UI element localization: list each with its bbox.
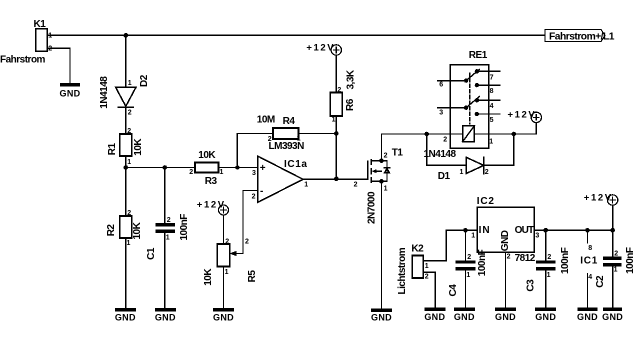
svg-text:10K: 10K [132, 221, 143, 239]
svg-text:2: 2 [443, 136, 447, 143]
svg-text:2: 2 [128, 110, 132, 117]
svg-text:LM393N: LM393N [269, 141, 305, 152]
svg-text:C2: C2 [595, 275, 606, 288]
svg-text:GND: GND [602, 312, 623, 322]
node junction D1 tap [424, 132, 429, 137]
svg-text:Fahrstrom: Fahrstrom [0, 55, 46, 66]
node junction R1/R2/rail [124, 165, 129, 170]
wire R2 to GND [125, 238, 127, 308]
svg-text:T1: T1 [392, 147, 404, 158]
power +12V above R6 [331, 45, 341, 55]
wire D2 anode drop [125, 35, 127, 87]
ground GND under IC2 [495, 308, 516, 312]
node junction T1 source [379, 179, 384, 184]
svg-text:IC1a: IC1a [284, 159, 308, 170]
capacitor C2 [603, 230, 622, 308]
wire R1 to R2 through node [125, 156, 127, 216]
wire R3 to op-amp +in [219, 167, 258, 169]
power +12V above R5 [219, 205, 229, 215]
svg-text:R2: R2 [106, 224, 117, 237]
svg-text:RE1: RE1 [469, 50, 488, 61]
ground GND under K2 [424, 308, 445, 312]
capacitor C1 [155, 168, 175, 309]
svg-text:1: 1 [48, 33, 52, 40]
wire IC1 pin4 ground stub [587, 274, 589, 309]
svg-text:GND: GND [115, 312, 136, 322]
wire R6 to output rail [335, 116, 337, 179]
resistor R3 [195, 163, 219, 173]
svg-text:GND: GND [424, 312, 445, 322]
relay RE1 [438, 65, 501, 149]
svg-text:2: 2 [252, 194, 256, 201]
wire IC2 OUT rail [534, 229, 613, 231]
svg-text:1: 1 [304, 181, 308, 188]
resistor R6 [330, 93, 342, 117]
ground GND under C4 [454, 308, 475, 312]
svg-text:1: 1 [489, 139, 493, 146]
diode D1 [466, 157, 484, 173]
wire IC2 GND pin to GND [505, 252, 507, 308]
svg-text:1: 1 [614, 266, 618, 273]
svg-text:2: 2 [354, 181, 358, 188]
svg-text:D1: D1 [438, 171, 451, 182]
svg-text:R5: R5 [247, 270, 258, 283]
svg-text:3: 3 [535, 233, 539, 240]
svg-text:10M: 10M [257, 114, 275, 125]
node junction top rail / D2 [124, 33, 129, 38]
svg-text:C1: C1 [146, 247, 157, 260]
ground GND under C1 [155, 308, 176, 312]
svg-text:2: 2 [384, 152, 388, 159]
svg-text:10K: 10K [133, 138, 144, 156]
svg-text:7: 7 [490, 74, 494, 81]
svg-text:1: 1 [547, 272, 551, 279]
wire relay coil rail [382, 133, 463, 135]
svg-text:OUT: OUT [515, 225, 534, 236]
svg-text:+12V: +12V [584, 193, 613, 204]
wire K2 pin2 to GND [427, 272, 435, 308]
transistor T1 2N7000 [368, 160, 390, 183]
svg-text:D2: D2 [139, 74, 150, 87]
svg-text:5: 5 [490, 117, 494, 124]
node junction C2 tap [610, 228, 615, 233]
svg-text:1N4148: 1N4148 [424, 149, 457, 160]
svg-text:-: - [260, 186, 263, 197]
svg-text:1: 1 [127, 159, 131, 166]
svg-text:100nF: 100nF [179, 214, 190, 241]
svg-text:4: 4 [490, 103, 494, 110]
svg-text:R3: R3 [205, 176, 218, 187]
svg-text:1: 1 [384, 185, 388, 192]
node junction feedback tap [235, 166, 239, 170]
wire +12V right drop [612, 205, 614, 230]
svg-text:3: 3 [439, 110, 443, 117]
svg-text:1: 1 [332, 116, 336, 123]
svg-text:3: 3 [252, 170, 256, 177]
resistor R4 [273, 128, 299, 139]
node junction C3 tap [543, 228, 548, 233]
svg-text:1N4148: 1N4148 [99, 76, 110, 109]
op-amp IC1a triangle [258, 156, 304, 203]
net flag Fahrstrom+/L1 [545, 30, 605, 42]
svg-text:GND: GND [213, 312, 234, 322]
svg-text:GND: GND [500, 230, 511, 251]
potentiometer R5 [217, 244, 236, 267]
wire R5 bottom to GND [223, 267, 225, 309]
svg-text:R1: R1 [107, 142, 118, 155]
power +12V right [607, 195, 617, 205]
svg-text:100nF: 100nF [477, 249, 488, 276]
svg-text:1: 1 [460, 169, 464, 176]
svg-text:2: 2 [425, 274, 429, 281]
wire op-amp -in to R5 wiper [236, 191, 257, 254]
resistor R2 [120, 216, 132, 238]
connector K1 [36, 29, 52, 52]
svg-text:1: 1 [471, 233, 475, 240]
node junction T1 drain [379, 158, 384, 163]
wire D1 cathode riser [484, 134, 514, 165]
svg-text:1: 1 [225, 269, 229, 276]
svg-text:IC1: IC1 [580, 256, 598, 267]
svg-text:2: 2 [485, 169, 489, 176]
svg-text:1: 1 [425, 263, 429, 270]
node junction R4/R6 [334, 131, 339, 136]
power +12V at relay [531, 112, 541, 122]
wire IC1 pin8 supply stub [587, 230, 589, 243]
wire R4 to R6 column [299, 133, 337, 135]
svg-text:+12V: +12V [197, 200, 226, 211]
wire D2 cathode to R1 [125, 107, 127, 134]
diode D1 freewheel loop wire [427, 134, 466, 165]
svg-text:2: 2 [127, 210, 131, 217]
svg-text:+12V: +12V [508, 110, 537, 121]
svg-text:1: 1 [127, 240, 131, 247]
ground GND under T1 [371, 309, 392, 313]
svg-text:GND: GND [155, 312, 176, 322]
svg-text:1: 1 [466, 272, 470, 279]
wire relay pin1 to +12V [474, 133, 536, 135]
svg-text:1: 1 [220, 169, 224, 176]
diode D2 [116, 87, 137, 107]
ground GND under R5 [213, 308, 234, 312]
wire T1 source to GND [381, 181, 383, 308]
svg-text:R4: R4 [283, 116, 296, 127]
node junction D1 riser / +12V rail [512, 132, 517, 137]
svg-text:Fahrstrom+/L1: Fahrstrom+/L1 [549, 31, 615, 42]
svg-text:8: 8 [490, 88, 494, 95]
svg-text:K1: K1 [34, 19, 47, 30]
wire feedback riser to R4 [237, 134, 273, 168]
wire T1 drain to relay rail [381, 134, 383, 161]
resistor R1 [120, 134, 132, 156]
svg-text:2: 2 [547, 254, 551, 261]
ground GND under C3 [535, 308, 556, 312]
node junction R6/output [334, 177, 339, 182]
svg-text:2: 2 [337, 87, 341, 94]
svg-text:2: 2 [48, 45, 52, 52]
wire +12V to R5 top [223, 215, 225, 244]
svg-text:2: 2 [127, 128, 131, 135]
svg-text:100nF: 100nF [560, 247, 571, 274]
svg-text:2: 2 [507, 253, 511, 260]
capacitor C3 [536, 230, 556, 308]
capacitor C4 [456, 230, 476, 308]
svg-text:GND: GND [371, 313, 392, 323]
svg-text:GND: GND [60, 89, 81, 99]
svg-text:2N7000: 2N7000 [366, 191, 377, 224]
wire K2 pin1 to IC2 IN [427, 230, 477, 261]
ground GND under C2 [603, 308, 622, 312]
svg-text:GND: GND [577, 312, 598, 322]
svg-text:4: 4 [588, 274, 592, 281]
svg-text:3,3K: 3,3K [346, 69, 357, 89]
connector K2 [412, 256, 427, 279]
svg-text:2: 2 [167, 217, 171, 224]
svg-text:6: 6 [439, 82, 443, 89]
svg-text:GND: GND [535, 312, 556, 322]
ground GND under IC1 pin4 [578, 308, 598, 312]
svg-text:2: 2 [225, 238, 229, 245]
ground GND under R2 [115, 308, 136, 312]
svg-text:IN: IN [479, 225, 491, 236]
node junction C4 tap [463, 228, 468, 233]
svg-text:10K: 10K [203, 268, 214, 286]
svg-text:1: 1 [128, 80, 132, 87]
svg-text:GND: GND [454, 312, 475, 322]
svg-text:GND: GND [495, 312, 516, 322]
svg-text:2: 2 [614, 251, 618, 258]
wire op-amp output rail to T1 gate [303, 178, 368, 180]
svg-text:2: 2 [245, 239, 249, 246]
svg-text:10K: 10K [198, 150, 216, 161]
node junction C1 tap [163, 165, 168, 170]
node junction IC1 supply tap [585, 228, 590, 233]
svg-text:Lichtstrom: Lichtstrom [397, 247, 408, 294]
svg-text:2: 2 [467, 254, 471, 261]
svg-text:C3: C3 [525, 279, 536, 292]
wire +12V drop to rail [535, 123, 537, 134]
svg-text:K2: K2 [411, 243, 424, 254]
svg-text:100nF: 100nF [625, 247, 636, 274]
svg-text:1: 1 [166, 235, 170, 242]
wire +12V to R6 [335, 55, 337, 92]
ground GND under K1 [60, 83, 80, 87]
svg-text:2: 2 [189, 169, 193, 176]
svg-text:8: 8 [588, 245, 592, 252]
svg-text:+: + [260, 163, 266, 174]
wire K1 pin2 to GND [47, 48, 70, 83]
IC2 7812 regulator [477, 207, 534, 252]
svg-text:R6: R6 [345, 98, 356, 111]
svg-text:+12V: +12V [306, 43, 335, 54]
wire mid rail to R3 [126, 167, 195, 169]
svg-text:7812: 7812 [515, 253, 536, 264]
wire top rail K1 pin1 to flag [47, 34, 545, 36]
svg-text:IC2: IC2 [477, 196, 495, 207]
svg-text:C4: C4 [448, 284, 459, 297]
